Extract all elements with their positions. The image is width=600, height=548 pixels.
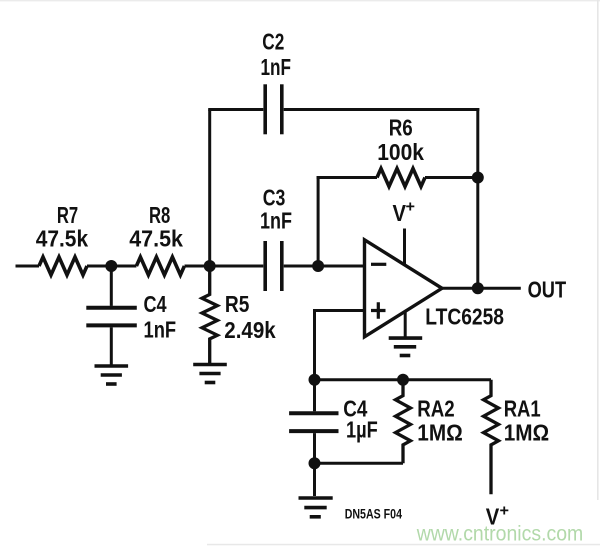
op-amp minus sign	[371, 263, 386, 266]
svg-text:2.49k: 2.49k	[224, 317, 276, 343]
ground under C4 1uF	[299, 498, 333, 517]
wire to ground G4	[313, 463, 316, 496]
svg-text:R7: R7	[57, 202, 78, 228]
page right border	[597, 0, 599, 500]
page bottom rule	[207, 544, 600, 546]
wire node C feedback row left	[317, 176, 377, 179]
node D junction dot (R6 right)	[472, 172, 484, 184]
wire V+ stub to op-amp top	[403, 229, 406, 266]
wire R8 to node B	[185, 265, 264, 268]
svg-text:R8: R8	[149, 202, 170, 228]
svg-text:V: V	[393, 200, 407, 226]
wire R6 to right rail	[425, 176, 478, 179]
svg-text:DN5AS F04: DN5AS F04	[345, 507, 403, 522]
resistor R8	[136, 257, 184, 275]
wire C2 to right rail	[284, 108, 480, 111]
wire input stub left	[16, 265, 40, 268]
svg-text:47.5k: 47.5k	[36, 225, 89, 251]
svg-text:OUT: OUT	[528, 277, 567, 303]
wire node B up to C2	[208, 110, 211, 267]
svg-text:RA2: RA2	[417, 396, 454, 422]
wire node B to op-amp via C3 right	[284, 265, 364, 268]
op-amp U1 triangle	[365, 240, 443, 337]
svg-text:www.cntronics.com: www.cntronics.com	[416, 522, 584, 546]
resistor R5	[202, 266, 217, 363]
resistor RA2	[396, 380, 411, 464]
svg-text:R5: R5	[225, 291, 250, 317]
page top border	[0, 0, 600, 1]
ground under R5	[193, 365, 227, 383]
wire R6 left down to node C	[317, 176, 320, 266]
svg-text:C2: C2	[262, 29, 284, 55]
capacitor C3	[265, 241, 282, 291]
wire output to OUT	[442, 287, 521, 290]
node OUT junction dot	[472, 282, 484, 294]
capacitor C2	[265, 84, 282, 134]
node F junction dot (RA2 top)	[397, 374, 409, 386]
node G junction dot (bottom)	[309, 457, 321, 469]
wire bottom node row	[315, 462, 404, 465]
wire op-amp bottom to ground	[404, 311, 407, 337]
svg-text:1nF: 1nF	[260, 208, 292, 234]
svg-text:47.5k: 47.5k	[129, 225, 183, 251]
wire bias rail	[315, 378, 492, 381]
svg-text:1MΩ: 1MΩ	[504, 420, 550, 446]
ground op-amp	[389, 338, 423, 355]
resistor R7	[39, 257, 87, 275]
svg-text:1µF: 1µF	[346, 416, 378, 442]
node E junction dot (bias left)	[309, 374, 321, 386]
node A junction dot	[105, 260, 117, 272]
wire R7 to node A	[87, 265, 136, 268]
op-amp plus sign	[371, 302, 386, 318]
svg-text:RA1: RA1	[504, 396, 541, 422]
resistor RA1	[484, 380, 499, 495]
capacitor C4 1nF	[110, 266, 113, 306]
svg-text:C4: C4	[144, 291, 167, 317]
node C junction dot	[312, 260, 324, 272]
svg-text:100k: 100k	[377, 139, 424, 165]
svg-text:+: +	[500, 503, 510, 520]
svg-text:R6: R6	[389, 114, 413, 140]
resistor R6	[377, 169, 425, 187]
wire top left to C2	[208, 108, 263, 111]
ground under C4 1nF	[95, 366, 129, 384]
svg-text:C3: C3	[263, 184, 286, 210]
svg-text:+: +	[406, 199, 416, 216]
svg-text:1nF: 1nF	[261, 54, 292, 80]
wire right rail down to output	[476, 108, 479, 288]
node B junction dot	[204, 260, 216, 272]
svg-text:1nF: 1nF	[144, 317, 177, 343]
svg-text:LTC6258: LTC6258	[425, 304, 504, 330]
wire non-inverting input	[315, 311, 365, 380]
svg-text:1MΩ: 1MΩ	[417, 420, 463, 446]
capacitor C4 1uF	[313, 380, 316, 412]
